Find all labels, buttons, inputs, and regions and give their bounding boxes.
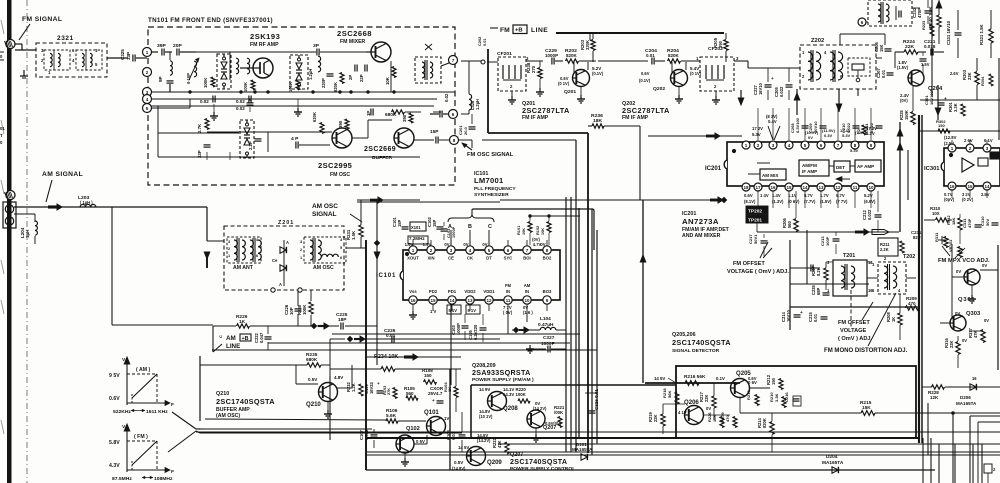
ground xyxy=(715,91,717,96)
IC301 pin1 dot xyxy=(949,153,953,157)
svg-text:+: + xyxy=(377,381,380,386)
svg-text:330K: 330K xyxy=(585,40,590,50)
svg-text:8.2K: 8.2K xyxy=(816,267,821,276)
svg-text:FM OSC SIGNAL: FM OSC SIGNAL xyxy=(467,152,514,158)
svg-text:(0.1V): (0.1V) xyxy=(592,71,604,76)
wire xyxy=(790,306,919,308)
svg-text:2SC1740SQSTA: 2SC1740SQSTA xyxy=(672,338,731,347)
svg-text:VDD1: VDD1 xyxy=(483,289,495,294)
wire am line xyxy=(213,325,236,327)
svg-text:15: 15 xyxy=(430,298,436,303)
svg-text:6.3V100: 6.3V100 xyxy=(795,117,800,133)
svg-text:50V1: 50V1 xyxy=(753,234,758,244)
front end osc vertical xyxy=(157,106,159,157)
svg-text:X101: X101 xyxy=(411,225,421,230)
svg-text:FM IF AMP: FM IF AMP xyxy=(622,115,649,121)
svg-text:13: 13 xyxy=(818,185,824,190)
discriminator coil box top xyxy=(868,0,912,26)
svg-text:100K: 100K xyxy=(302,304,307,315)
svg-text:9P: 9P xyxy=(158,76,163,82)
svg-text:10: 10 xyxy=(868,185,874,190)
svg-text:5.3V: 5.3V xyxy=(850,148,859,153)
TN101 shield box xyxy=(148,27,455,185)
svg-text:0.018: 0.018 xyxy=(924,44,936,49)
svg-text:Q208: Q208 xyxy=(503,406,518,412)
pin 7 bubble xyxy=(449,56,458,65)
junction bubbles bottom edge xyxy=(271,288,275,292)
svg-text:470P: 470P xyxy=(917,8,922,18)
svg-text:108MHz: 108MHz xyxy=(154,476,173,482)
IC201 top pin 8 xyxy=(851,141,859,149)
inductor rf choke xyxy=(236,58,239,74)
wire right edge xyxy=(998,58,1000,140)
wire stubs above IC201 xyxy=(757,108,759,140)
IC201 bottom pin 17 xyxy=(754,183,762,191)
svg-text:150: 150 xyxy=(424,373,432,378)
svg-text:+: + xyxy=(771,76,774,81)
svg-text:Q202: Q202 xyxy=(653,86,665,92)
svg-text:0.02: 0.02 xyxy=(200,99,209,104)
svg-text:820K: 820K xyxy=(566,53,578,58)
svg-text:IF AMP: IF AMP xyxy=(802,169,817,174)
svg-text:0V: 0V xyxy=(984,318,989,323)
svg-text:R223: R223 xyxy=(921,20,926,30)
svg-text:15P: 15P xyxy=(432,219,437,227)
svg-text:0.5V: 0.5V xyxy=(454,460,463,465)
svg-text:0V: 0V xyxy=(463,242,468,247)
svg-text:1 4V: 1 4V xyxy=(760,193,769,198)
svg-text:100K: 100K xyxy=(203,77,208,88)
IC201 bottom pin 18 xyxy=(742,183,750,191)
svg-text:22K: 22K xyxy=(949,340,954,348)
trimmer cap xyxy=(938,239,946,241)
wire xyxy=(346,247,366,249)
svg-text:0.022: 0.022 xyxy=(846,122,851,133)
graph pointer join xyxy=(196,428,200,430)
svg-text:0.6V: 0.6V xyxy=(641,71,650,76)
svg-text:LINE: LINE xyxy=(226,343,240,350)
wire xyxy=(15,49,36,51)
svg-text:18: 18 xyxy=(743,185,749,190)
leader xyxy=(862,302,873,320)
svg-text:0.047: 0.047 xyxy=(259,332,264,343)
svg-text:0.01: 0.01 xyxy=(482,38,487,46)
filter 2321 shield box xyxy=(36,43,107,77)
IC101 index dot xyxy=(405,252,408,255)
svg-text:CF201: CF201 xyxy=(497,51,512,57)
diamond arrows on wire xyxy=(311,323,316,328)
capacitor 33P osc xyxy=(206,152,208,160)
svg-text:0V: 0V xyxy=(706,406,711,411)
svg-text:0.4V: 0.4V xyxy=(768,119,777,124)
svg-text:R321 1.5K: R321 1.5K xyxy=(979,23,984,45)
pin bubble xyxy=(858,18,866,26)
svg-text:820K: 820K xyxy=(668,53,680,58)
svg-text:FM IF AMP: FM IF AMP xyxy=(522,115,549,121)
svg-text:0.6V: 0.6V xyxy=(744,193,753,198)
svg-text:22P: 22P xyxy=(359,74,364,82)
heavy page-edge bar xyxy=(7,0,12,483)
svg-text:12K: 12K xyxy=(930,395,939,400)
svg-text:15: 15 xyxy=(786,185,792,190)
wire xyxy=(757,162,770,164)
bus vertical 643 with arrow xyxy=(642,200,644,383)
svg-text:(AM OSC): (AM OSC) xyxy=(216,413,240,419)
svg-text:D206: D206 xyxy=(960,395,971,400)
heavy frame vertical xyxy=(918,115,920,443)
block AM MIX xyxy=(760,169,786,180)
svg-text:2SC1740SQSTA: 2SC1740SQSTA xyxy=(510,458,567,466)
resistor 620K xyxy=(320,123,324,134)
IC301 bottom pin 15 xyxy=(966,182,974,190)
svg-text:2P: 2P xyxy=(348,75,353,80)
wire xyxy=(295,365,297,384)
svg-text:1000P: 1000P xyxy=(545,53,558,58)
wire xyxy=(151,98,263,100)
svg-text:270: 270 xyxy=(531,65,536,73)
ground xyxy=(327,402,329,410)
svg-text:FM: FM xyxy=(500,27,510,34)
svg-text:AM: AM xyxy=(226,335,236,342)
svg-text:AM: AM xyxy=(524,283,531,288)
svg-text:16: 16 xyxy=(972,376,977,381)
inductor with 9P cap xyxy=(169,52,171,60)
svg-text:0 5V: 0 5V xyxy=(416,439,425,444)
svg-text:BUFFER: BUFFER xyxy=(372,155,393,161)
svg-text:FM OSC: FM OSC xyxy=(330,172,350,178)
bus wire bottom xyxy=(366,469,935,471)
IC301 bottom pin 14 xyxy=(983,182,991,190)
section box edge xyxy=(199,356,201,421)
svg-text:DET: DET xyxy=(836,165,845,170)
IC101 top pin XIN xyxy=(427,246,435,254)
svg-text:LM7001: LM7001 xyxy=(474,176,504,185)
adjust axis dash line xyxy=(850,290,852,328)
black arrow on AM wire xyxy=(48,205,57,208)
filter coil block 2 xyxy=(76,50,102,70)
svg-text:10X: 10X xyxy=(932,211,940,216)
svg-text:18K: 18K xyxy=(951,218,956,225)
wire xyxy=(329,339,331,376)
svg-text:0.1V: 0.1V xyxy=(716,376,725,381)
wire AM into Z201 xyxy=(206,207,208,241)
left margin tick marks xyxy=(1,20,4,34)
svg-text:DT: DT xyxy=(486,256,492,261)
AM ANT transformer xyxy=(227,237,261,263)
diode pair xyxy=(283,240,285,286)
AM jack xyxy=(6,191,15,200)
svg-text:5.8V: 5.8V xyxy=(109,440,120,446)
capacitor 2P xyxy=(354,65,356,72)
svg-text:390: 390 xyxy=(402,114,407,122)
svg-text:10P: 10P xyxy=(289,307,294,315)
svg-text:0.01: 0.01 xyxy=(881,69,886,78)
svg-text:Q102: Q102 xyxy=(406,426,420,432)
wire xyxy=(757,231,790,233)
svg-text:R2: R2 xyxy=(856,129,861,134)
IC201 bottom pin 12 xyxy=(834,183,842,191)
graph pointer lines xyxy=(172,412,196,429)
IC101 top pin CK xyxy=(466,246,474,254)
svg-text:Z201: Z201 xyxy=(278,220,294,226)
wire FM rf input bus xyxy=(151,91,455,93)
IC101 top pin DT xyxy=(485,246,493,254)
variable inductor 0-10P xyxy=(194,61,197,77)
svg-text:F: F xyxy=(171,402,174,408)
svg-text:MA165TA: MA165TA xyxy=(822,460,844,466)
svg-text:FM SIGNAL: FM SIGNAL xyxy=(22,16,62,23)
svg-text:AND AM MIXER: AND AM MIXER xyxy=(682,233,721,239)
svg-text:5.2V: 5.2V xyxy=(864,193,873,198)
AM signal wire xyxy=(14,206,207,208)
svg-text:C325: C325 xyxy=(120,49,125,60)
svg-text:3.3K: 3.3K xyxy=(774,393,779,402)
wire xyxy=(952,276,964,278)
svg-text:3P: 3P xyxy=(313,43,320,49)
svg-text:14: 14 xyxy=(984,184,990,189)
bus wire xyxy=(196,431,1000,433)
svg-text:SIGNAL: SIGNAL xyxy=(312,211,336,218)
leader lines xyxy=(760,242,768,258)
Z202 shield box xyxy=(800,45,876,89)
svg-text:Q209: Q209 xyxy=(487,460,502,466)
svg-text:(0pV): (0pV) xyxy=(944,197,955,202)
svg-text:1.2µH: 1.2µH xyxy=(308,69,313,80)
svg-text:Q303: Q303 xyxy=(966,311,981,317)
wire xyxy=(748,67,800,69)
svg-text:IN: IN xyxy=(506,289,510,294)
ground xyxy=(404,453,406,458)
svg-text:15P: 15P xyxy=(397,219,402,227)
wire IF xyxy=(598,60,648,62)
svg-text:+: + xyxy=(800,311,803,316)
svg-text:(7.7V): (7.7V) xyxy=(804,199,816,204)
svg-text:5 1V: 5 1V xyxy=(468,308,477,313)
bus vertical xyxy=(329,376,331,440)
svg-text:1611 KHz: 1611 KHz xyxy=(146,409,168,415)
svg-text:( AM ): ( AM ) xyxy=(136,367,150,373)
svg-text:39P: 39P xyxy=(157,43,167,49)
svg-text:F: F xyxy=(171,469,174,475)
svg-text:A: A xyxy=(286,240,289,245)
svg-text:VOLTAGE ( OmV ) ADJ.: VOLTAGE ( OmV ) ADJ. xyxy=(727,269,789,275)
svg-text:0.01: 0.01 xyxy=(646,53,655,58)
svg-text:2SA933SQRSTA: 2SA933SQRSTA xyxy=(472,369,531,377)
svg-text:2: 2 xyxy=(300,247,302,252)
bus vertical xyxy=(907,150,909,200)
wire xyxy=(931,0,933,96)
svg-text:4.8V: 4.8V xyxy=(334,375,343,380)
FM +B LINE label xyxy=(490,27,498,29)
svg-text:1.5V: 1.5V xyxy=(423,242,432,247)
wire R101 R102 top xyxy=(530,215,580,217)
svg-text:C: C xyxy=(218,335,223,338)
svg-text:BOI: BOI xyxy=(523,256,530,261)
svg-text:R216 56K: R216 56K xyxy=(684,374,706,380)
Z202 transformer B xyxy=(830,52,835,80)
svg-text:(0 6V): (0 6V) xyxy=(788,199,800,204)
wire 14.5V feed xyxy=(645,382,740,384)
IC201 top pin 3 xyxy=(769,141,777,149)
svg-text:50V: 50V xyxy=(985,219,990,226)
svg-text:Vss: Vss xyxy=(409,289,417,294)
varactor box 3 xyxy=(240,120,254,158)
wire xyxy=(441,63,449,66)
leader arrow to FM jack xyxy=(19,24,30,40)
svg-text:16V10: 16V10 xyxy=(786,309,791,322)
wire xyxy=(912,7,920,9)
svg-text:1µH: 1µH xyxy=(25,230,30,238)
voltage 5.1V boxes xyxy=(447,305,461,314)
capacitor 22P xyxy=(364,65,366,72)
transistor Q201 xyxy=(573,70,590,87)
resistor 100K xyxy=(251,80,255,90)
wire bus y444 xyxy=(498,443,1000,445)
svg-text:15: 15 xyxy=(967,184,973,189)
front end rail y108 xyxy=(151,107,190,109)
Z202 bottom arrows xyxy=(796,89,798,115)
svg-text:TN101 FM FRONT END (SNVFE3370: TN101 FM FRONT END (SNVFE337001) xyxy=(148,17,273,24)
inner vertical xyxy=(449,369,451,470)
wire xyxy=(376,200,378,365)
svg-text:10K: 10K xyxy=(521,228,526,235)
transistor 2SC2668 xyxy=(371,42,391,62)
svg-text:20P: 20P xyxy=(173,43,183,49)
svg-text:6.3V220: 6.3V220 xyxy=(473,324,478,340)
svg-text:0V: 0V xyxy=(540,242,545,247)
svg-text:1K: 1K xyxy=(891,317,896,322)
svg-text:390: 390 xyxy=(338,120,343,128)
bus vertical xyxy=(565,197,567,452)
svg-text:L104: L104 xyxy=(540,316,551,322)
page right edge line xyxy=(997,245,999,370)
svg-text:0.022: 0.022 xyxy=(869,122,874,133)
IC101 top pin CE xyxy=(447,246,455,254)
svg-text:10K: 10K xyxy=(712,415,717,422)
svg-text:MA165TA: MA165TA xyxy=(956,401,977,406)
svg-text:11: 11 xyxy=(506,298,511,303)
svg-text:(1.6 ): (1.6 ) xyxy=(523,310,533,315)
svg-text:16V100: 16V100 xyxy=(929,90,934,105)
ground xyxy=(511,91,513,96)
IC301 top pin 3 xyxy=(983,144,991,152)
svg-text:(0.1V): (0.1V) xyxy=(639,78,651,83)
bus wire pair xyxy=(366,451,1000,453)
svg-text:0.022: 0.022 xyxy=(867,209,872,220)
box corner dashed xyxy=(978,421,1000,423)
svg-text:22K: 22K xyxy=(704,394,709,402)
svg-text:1000P: 1000P xyxy=(456,323,461,335)
svg-text:AF AMP: AF AMP xyxy=(857,164,874,169)
svg-text:2SC2669: 2SC2669 xyxy=(364,146,396,153)
svg-text:87.5MHz: 87.5MHz xyxy=(112,476,132,482)
IC201 top pin 7 xyxy=(834,141,842,149)
svg-text:TP202: TP202 xyxy=(748,209,762,215)
wire xyxy=(268,131,332,133)
svg-text:820K: 820K xyxy=(333,82,338,92)
svg-text:0V: 0V xyxy=(962,338,967,343)
IC201 top pin 2 xyxy=(754,141,762,149)
pin 5 bubble xyxy=(143,104,152,113)
svg-text:LINE: LINE xyxy=(531,27,548,34)
svg-text:100K: 100K xyxy=(243,82,248,92)
svg-text:13: 13 xyxy=(467,298,473,303)
svg-text:0.02: 0.02 xyxy=(236,106,245,111)
svg-text:0.6V: 0.6V xyxy=(109,396,120,402)
svg-text:0.3V: 0.3V xyxy=(824,133,833,138)
IC301 inner blocks xyxy=(978,158,988,166)
svg-text:150: 150 xyxy=(938,123,945,128)
svg-text:0V: 0V xyxy=(956,269,961,274)
svg-text:220P: 220P xyxy=(321,78,326,88)
svg-text:14.3V 100K: 14.3V 100K xyxy=(503,392,527,397)
svg-text:01: 01 xyxy=(0,126,5,131)
svg-text:T201: T201 xyxy=(843,253,855,259)
svg-text:0.6V: 0.6V xyxy=(748,376,757,381)
svg-text:0.01: 0.01 xyxy=(813,313,818,322)
svg-text:(1.5V): (1.5V) xyxy=(897,65,909,70)
wire xyxy=(151,51,158,53)
svg-text:1.2µH: 1.2µH xyxy=(475,99,480,110)
AM OSC transformer xyxy=(304,237,346,263)
svg-text:150K: 150K xyxy=(904,110,909,120)
inductor 1.2uH xyxy=(318,56,321,72)
svg-text:1 V: 1 V xyxy=(430,309,437,314)
svg-text:( OmV ) ADJ.: ( OmV ) ADJ. xyxy=(838,336,873,342)
svg-text:R311: R311 xyxy=(934,232,939,242)
svg-text:18P: 18P xyxy=(338,317,346,323)
svg-text:0V: 0V xyxy=(982,263,987,268)
svg-text:4 P: 4 P xyxy=(291,136,299,142)
svg-text:CE: CE xyxy=(448,256,454,261)
svg-text:2.2K: 2.2K xyxy=(880,247,889,252)
wire xyxy=(337,387,352,389)
resistor 100K xyxy=(296,80,300,90)
IC101 top pin BO2 xyxy=(543,246,551,254)
AM tuning graph xyxy=(126,363,128,405)
diamond arrows xyxy=(513,327,518,332)
svg-text:12: 12 xyxy=(835,185,841,190)
svg-text:Q301: Q301 xyxy=(958,297,975,303)
IC101 body xyxy=(403,250,560,300)
frame vertical xyxy=(806,230,808,284)
svg-text:+: + xyxy=(432,398,435,403)
svg-text:5 1V: 5 1V xyxy=(449,308,458,313)
IC201 body xyxy=(727,142,884,186)
svg-text:R213: R213 xyxy=(746,390,751,400)
svg-text:2321: 2321 xyxy=(57,35,74,42)
svg-text:1P: 1P xyxy=(366,111,371,116)
svg-text:FM OFFSET: FM OFFSET xyxy=(733,261,765,267)
svg-text:FM: FM xyxy=(505,283,512,288)
wire pair y339-343 xyxy=(268,342,570,344)
svg-text:2SC2787LTA: 2SC2787LTA xyxy=(522,106,570,115)
wire xyxy=(589,33,591,40)
wire xyxy=(876,57,882,59)
svg-text:7.2MHz: 7.2MHz xyxy=(409,236,425,241)
transistor Q204 xyxy=(908,70,924,86)
wire xyxy=(790,267,820,269)
leader arrow xyxy=(46,180,52,202)
IC101 top pin SYC xyxy=(504,246,512,254)
svg-text:AN7273A: AN7273A xyxy=(682,217,719,226)
svg-text:(1.5V): (1.5V) xyxy=(820,199,832,204)
front end osc rail xyxy=(207,131,268,133)
wire xyxy=(920,99,1000,101)
svg-text:16: 16 xyxy=(949,184,955,189)
FM detector signal wire xyxy=(357,201,500,203)
svg-text:3.3K: 3.3K xyxy=(953,103,958,112)
